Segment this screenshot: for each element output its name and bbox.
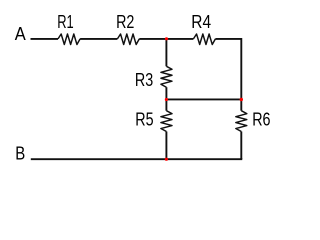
junction node R2-R3-R4 [165, 37, 168, 40]
resistor R1 [58, 34, 80, 45]
wire middle link to right rail [166, 98, 241, 100]
wire R1 to R2 [80, 38, 117, 40]
svg-text:R1: R1 [57, 12, 73, 32]
wire R3 top lead [165, 39, 167, 66]
junction node R5-bottom rail [165, 158, 168, 161]
wire B bottom rail [31, 158, 242, 159]
resistor R4 [193, 34, 215, 45]
svg-text:R5: R5 [135, 110, 153, 130]
svg-text:R4: R4 [191, 12, 211, 32]
resistor R3 [161, 66, 172, 87]
wire R5 top lead [165, 99, 167, 110]
wire A to R1 [31, 38, 59, 40]
wire R6 top lead [240, 99, 242, 110]
wire R3 bottom lead [165, 87, 167, 99]
resistor R2 [117, 34, 139, 45]
resistor R5 [161, 111, 172, 132]
wire R5 bottom lead [165, 132, 167, 160]
wire R2 to node and R4 [139, 38, 193, 40]
svg-text:A: A [15, 24, 26, 44]
svg-text:B: B [15, 144, 25, 164]
wire R4 to right rail corner down to mid node [215, 39, 241, 100]
junction node R3-R5 [165, 98, 168, 101]
resistor R6 [236, 111, 247, 132]
wire R6 bottom lead [240, 132, 242, 160]
junction node link-right rail [240, 98, 243, 101]
svg-text:R2: R2 [116, 12, 134, 32]
svg-text:R3: R3 [135, 70, 153, 90]
svg-text:R6: R6 [252, 110, 270, 130]
